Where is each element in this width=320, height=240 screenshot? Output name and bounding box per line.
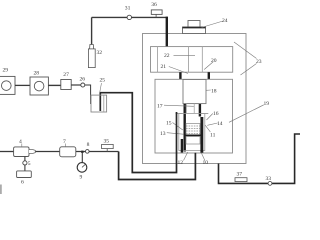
connector bar right: [208, 72, 210, 79]
svg-text:31: 31: [125, 6, 131, 12]
leader 25: [100, 83, 102, 93]
main line between 4 and 7: [35, 151, 59, 153]
gauge 9: [77, 163, 87, 173]
svg-text:9: 9: [80, 175, 83, 181]
box 29: [0, 76, 15, 94]
leader 17: [164, 105, 194, 106]
leader 23 upper: [234, 42, 257, 59]
divider a: [157, 47, 159, 73]
svg-text:25: 25: [100, 78, 106, 84]
box 24 slab thick top: [183, 27, 206, 29]
svg-text:16: 16: [213, 111, 219, 117]
divider c: [201, 47, 203, 73]
leader 24: [202, 21, 224, 28]
crucible hatch lines: [186, 126, 200, 134]
leader 4: [21, 144, 23, 147]
svg-text:14: 14: [217, 121, 223, 127]
apparatus neck line right: [193, 104, 195, 113]
svg-text:15: 15: [166, 120, 172, 126]
leader 23 lower: [241, 64, 257, 76]
gauge 9 needle: [82, 164, 85, 167]
wire drop to cylinder 32: [91, 17, 93, 44]
nozzle of box 4: [29, 150, 35, 154]
main line from 7 to turn: [76, 151, 119, 153]
valve 5: [23, 161, 27, 165]
wire 28-27: [48, 84, 60, 86]
wire W1 beaker electrode and run to apparatus: [100, 93, 176, 173]
wire 26 to beaker: [85, 85, 91, 104]
valve 8: [86, 150, 90, 154]
crucible bottom plate: [185, 134, 202, 136]
lower sample box: [186, 137, 200, 145]
cylinder 32 neck: [90, 45, 94, 49]
svg-text:35: 35: [104, 139, 110, 145]
svg-text:5: 5: [28, 161, 31, 167]
electrode stub right: [199, 104, 201, 117]
box 36 tick to wire: [155, 14, 157, 17]
wire W2 from main line to apparatus: [119, 152, 196, 180]
svg-text:33: 33: [266, 176, 272, 182]
valve 31: [127, 15, 131, 19]
lower inner rect 19: [155, 79, 233, 153]
leader 19: [229, 105, 264, 123]
gray smudge bottom-left: [0, 185, 2, 195]
svg-text:28: 28: [34, 71, 40, 77]
box 28: [30, 77, 48, 95]
svg-text:37: 37: [237, 172, 243, 178]
leader 10: [202, 153, 206, 161]
apparatus neck line left: [186, 104, 188, 113]
svg-text:17: 17: [157, 103, 163, 109]
svg-text:32: 32: [97, 50, 103, 56]
svg-text:18: 18: [211, 88, 217, 94]
wire top gas line horizontal: [92, 16, 167, 18]
circle in 29: [2, 81, 12, 91]
cup rim flange left: [176, 113, 183, 115]
wire W3 bottom right: [219, 134, 301, 183]
circle in 28: [34, 81, 44, 91]
leader 18: [206, 89, 211, 91]
cup rim flange right: [201, 113, 208, 115]
leader 22: [174, 54, 196, 56]
box 35: [102, 144, 114, 148]
svg-text:11: 11: [210, 133, 216, 139]
leader 7: [64, 144, 66, 147]
leader 13: [167, 133, 184, 135]
leader 11: [205, 125, 210, 132]
svg-text:19: 19: [264, 101, 270, 107]
svg-text:29: 29: [3, 68, 9, 74]
box 36: [151, 10, 162, 15]
connector bar left: [179, 72, 181, 79]
junction to gauge 9: [81, 151, 83, 153]
box 27: [61, 80, 71, 90]
box 6: [17, 171, 32, 178]
electrode rod left: [184, 104, 186, 152]
wire thick drop from 36 into upper rect: [166, 17, 168, 47]
box 18: [183, 80, 206, 104]
svg-text:23: 23: [256, 59, 262, 65]
cylinder 32 body: [88, 49, 95, 68]
svg-text:22: 22: [164, 53, 170, 59]
svg-text:13: 13: [160, 131, 166, 137]
svg-text:8: 8: [87, 142, 90, 148]
wire 29-28: [15, 84, 30, 86]
main bottom line segment left: [0, 151, 14, 153]
svg-text:26: 26: [80, 77, 86, 83]
svg-text:21: 21: [161, 64, 167, 70]
foot bar left: [181, 139, 183, 153]
crucible hatched: [186, 124, 200, 136]
box 35 tick to line: [106, 149, 108, 152]
side bar right: [200, 117, 203, 153]
svg-text:27: 27: [63, 72, 69, 78]
leader 15: [173, 123, 183, 131]
cup outer wall: [179, 114, 205, 151]
svg-text:12: 12: [178, 160, 184, 166]
svg-text:6: 6: [21, 180, 24, 186]
svg-text:10: 10: [203, 160, 209, 166]
valve 5 stem: [24, 157, 26, 171]
valve 26: [81, 83, 85, 87]
divider b: [188, 47, 190, 73]
box 7: [60, 147, 76, 157]
upper inner rect (22/20 assembly): [151, 47, 233, 73]
beaker 25: [91, 95, 107, 112]
leader 16: [207, 114, 213, 121]
leader 21: [169, 67, 188, 74]
box 24 base slab: [183, 27, 206, 34]
box 4: [14, 147, 29, 157]
chamber 23 outer rectangle: [143, 34, 247, 164]
beaker 25 inner wall: [103, 95, 105, 112]
box 24 upper block: [188, 21, 200, 28]
leader 12: [184, 152, 188, 161]
valve 33: [268, 182, 272, 186]
leader 14: [207, 123, 217, 125]
box 37: [235, 178, 247, 182]
wire 27-26: [71, 84, 81, 86]
svg-text:36: 36: [151, 2, 157, 8]
leader 20: [204, 62, 213, 70]
gauge 9 stem: [81, 152, 83, 163]
